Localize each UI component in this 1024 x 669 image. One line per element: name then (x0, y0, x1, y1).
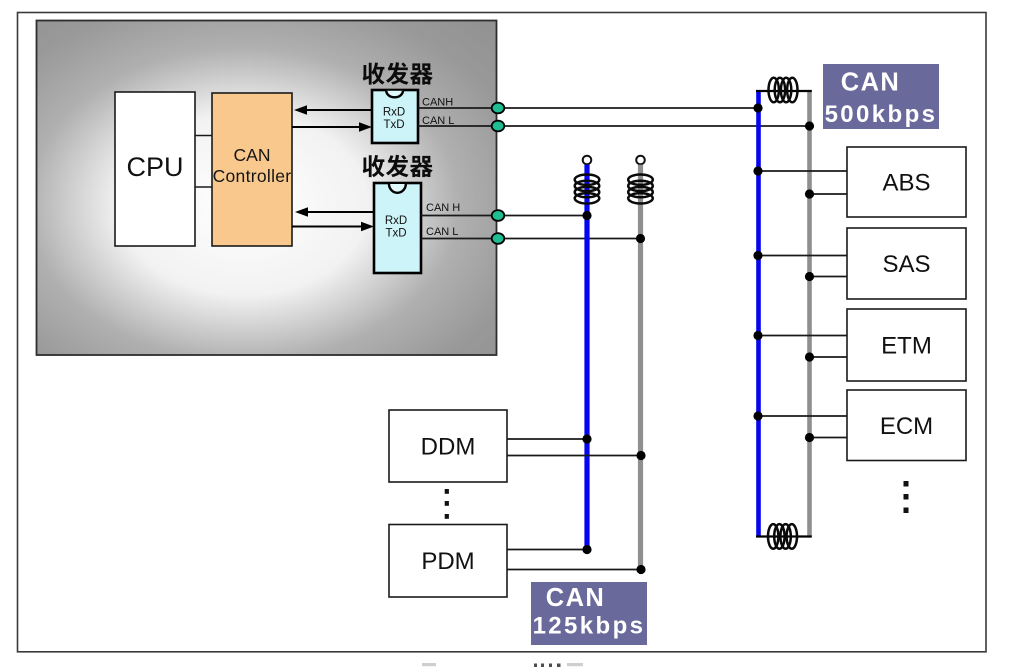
svg-text:CANH: CANH (422, 97, 453, 109)
svg-text:500kbps: 500kbps (825, 101, 938, 128)
svg-text:CAN: CAN (841, 69, 900, 97)
svg-text:ECM: ECM (880, 413, 933, 440)
svg-text:ETM: ETM (881, 333, 932, 360)
svg-text:CAN L: CAN L (422, 115, 454, 127)
svg-text:125kbps: 125kbps (533, 613, 646, 640)
svg-text:PDM: PDM (421, 548, 474, 575)
svg-text:RxD: RxD (385, 215, 407, 227)
svg-text:TxD: TxD (385, 228, 406, 240)
svg-text:CAN L: CAN L (426, 226, 458, 238)
svg-text:CAN: CAN (546, 584, 605, 612)
svg-text:TxD: TxD (383, 119, 404, 131)
svg-text:CAN: CAN (234, 145, 271, 165)
svg-text:Controller: Controller (213, 166, 292, 186)
svg-text:CPU: CPU (126, 152, 183, 182)
svg-text:CAN H: CAN H (426, 202, 460, 214)
svg-text:ABS: ABS (882, 170, 930, 197)
svg-text:DDM: DDM (421, 434, 476, 461)
svg-text:SAS: SAS (882, 251, 930, 278)
svg-text:RxD: RxD (383, 107, 405, 119)
